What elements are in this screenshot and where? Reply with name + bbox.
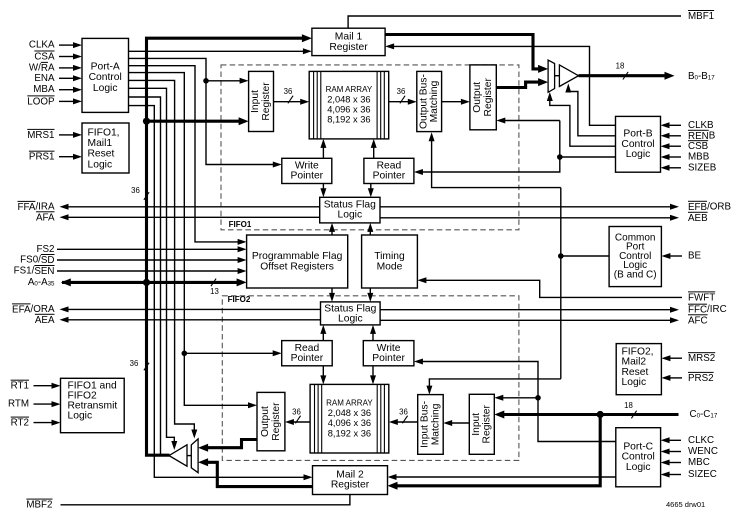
svg-text:Register: Register bbox=[261, 82, 272, 121]
svg-text:(B and C): (B and C) bbox=[614, 269, 657, 280]
svg-text:CSB: CSB bbox=[688, 141, 709, 152]
svg-text:Logic: Logic bbox=[626, 462, 651, 473]
svg-text:Input: Input bbox=[250, 90, 261, 113]
svg-text:BE: BE bbox=[688, 251, 702, 262]
svg-text:FIFO1,: FIFO1, bbox=[88, 127, 120, 138]
svg-text:CLKA: CLKA bbox=[29, 40, 55, 51]
svg-text:AFA: AFA bbox=[36, 212, 55, 223]
svg-text:Logic: Logic bbox=[338, 314, 363, 325]
svg-text:AEB: AEB bbox=[688, 212, 708, 223]
svg-text:Matching: Matching bbox=[430, 403, 441, 445]
svg-text:Pointer: Pointer bbox=[373, 171, 406, 182]
svg-text:Register: Register bbox=[482, 405, 493, 444]
svg-text:W/RA: W/RA bbox=[29, 62, 55, 73]
svg-text:MRS2: MRS2 bbox=[688, 353, 715, 364]
svg-text:Pointer: Pointer bbox=[372, 353, 405, 364]
svg-text:FS0/SD: FS0/SD bbox=[20, 255, 54, 266]
svg-text:PRS2: PRS2 bbox=[688, 372, 714, 383]
svg-text:MBC: MBC bbox=[688, 457, 710, 468]
svg-text:36: 36 bbox=[292, 407, 301, 416]
svg-text:RTM: RTM bbox=[8, 399, 29, 410]
svg-text:RT1: RT1 bbox=[11, 380, 29, 391]
svg-text:MBB: MBB bbox=[688, 152, 710, 163]
svg-text:CLKB: CLKB bbox=[688, 120, 714, 131]
svg-text:Input Bus-: Input Bus- bbox=[420, 401, 431, 448]
svg-text:CSA: CSA bbox=[34, 51, 55, 62]
svg-text:Logic: Logic bbox=[68, 411, 93, 422]
svg-text:18: 18 bbox=[624, 401, 633, 410]
svg-text:FFC/IRC: FFC/IRC bbox=[688, 304, 727, 315]
svg-text:SIZEC: SIZEC bbox=[688, 469, 717, 480]
svg-text:Offset Registers: Offset Registers bbox=[260, 261, 334, 272]
svg-text:Pointer: Pointer bbox=[290, 171, 323, 182]
svg-text:Mail1: Mail1 bbox=[88, 138, 113, 149]
svg-text:2,048 x 36: 2,048 x 36 bbox=[328, 408, 371, 418]
svg-text:MRS1: MRS1 bbox=[27, 129, 54, 140]
svg-text:Matching: Matching bbox=[429, 80, 440, 122]
svg-text:MBA: MBA bbox=[33, 84, 55, 95]
svg-text:Output: Output bbox=[260, 406, 271, 437]
svg-text:AFC: AFC bbox=[688, 315, 708, 326]
svg-text:RAM ARRAY: RAM ARRAY bbox=[326, 399, 373, 408]
svg-text:18: 18 bbox=[616, 62, 625, 71]
svg-text:FIFO2: FIFO2 bbox=[228, 295, 251, 304]
svg-text:36: 36 bbox=[284, 87, 293, 96]
svg-text:RAM ARRAY: RAM ARRAY bbox=[326, 85, 373, 94]
svg-text:4665 drw01: 4665 drw01 bbox=[666, 500, 705, 509]
svg-text:MBF2: MBF2 bbox=[26, 499, 52, 510]
svg-text:AEA: AEA bbox=[35, 314, 55, 325]
svg-text:SIZEB: SIZEB bbox=[688, 162, 717, 173]
svg-text:PRS1: PRS1 bbox=[29, 151, 55, 162]
svg-text:8,192 x 36: 8,192 x 36 bbox=[328, 429, 371, 439]
svg-text:EFB/ORB: EFB/ORB bbox=[688, 201, 731, 212]
svg-text:2,048 x 36: 2,048 x 36 bbox=[327, 94, 370, 104]
svg-text:RENB: RENB bbox=[688, 130, 716, 141]
svg-text:Reset: Reset bbox=[88, 149, 115, 160]
svg-text:FS2: FS2 bbox=[37, 244, 55, 255]
svg-text:MBF1: MBF1 bbox=[688, 11, 714, 22]
svg-text:Programmable Flag: Programmable Flag bbox=[252, 251, 343, 262]
svg-text:36: 36 bbox=[397, 87, 406, 96]
svg-text:Register: Register bbox=[331, 480, 370, 491]
svg-text:FIFO1: FIFO1 bbox=[229, 220, 252, 229]
svg-text:Logic: Logic bbox=[93, 83, 118, 94]
svg-text:FS1/SEN: FS1/SEN bbox=[14, 266, 55, 277]
svg-text:Logic: Logic bbox=[626, 149, 651, 160]
svg-text:Register: Register bbox=[483, 78, 494, 117]
svg-text:Mode: Mode bbox=[377, 261, 403, 272]
svg-text:Register: Register bbox=[271, 402, 282, 441]
svg-text:8,192 x 36: 8,192 x 36 bbox=[327, 114, 370, 124]
svg-text:Register: Register bbox=[329, 42, 368, 53]
svg-text:FWFT: FWFT bbox=[688, 292, 715, 303]
svg-text:Output Bus-: Output Bus- bbox=[418, 74, 429, 129]
svg-text:4,096 x 36: 4,096 x 36 bbox=[327, 104, 370, 114]
svg-text:36: 36 bbox=[130, 359, 139, 368]
svg-text:36: 36 bbox=[399, 407, 408, 416]
svg-text:ENA: ENA bbox=[34, 73, 55, 84]
svg-text:Timing: Timing bbox=[374, 251, 405, 262]
svg-text:Control: Control bbox=[89, 72, 122, 83]
svg-text:4,096 x 36: 4,096 x 36 bbox=[328, 418, 371, 428]
svg-text:EFA/ORA: EFA/ORA bbox=[12, 304, 55, 315]
svg-text:Logic: Logic bbox=[337, 210, 362, 221]
svg-text:Logic: Logic bbox=[622, 377, 647, 388]
svg-text:Logic: Logic bbox=[88, 159, 113, 170]
svg-text:RT2: RT2 bbox=[11, 417, 29, 428]
svg-text:13: 13 bbox=[210, 287, 219, 296]
svg-text:Pointer: Pointer bbox=[291, 353, 324, 364]
svg-text:Output: Output bbox=[472, 82, 483, 113]
svg-text:WENC: WENC bbox=[688, 446, 718, 457]
svg-text:CLKC: CLKC bbox=[688, 435, 714, 446]
svg-text:36: 36 bbox=[131, 186, 140, 195]
svg-text:Input: Input bbox=[471, 413, 482, 436]
svg-text:Port-A: Port-A bbox=[91, 61, 120, 72]
svg-text:FFA/IRA: FFA/IRA bbox=[17, 201, 54, 212]
svg-text:LOOP: LOOP bbox=[27, 96, 55, 107]
